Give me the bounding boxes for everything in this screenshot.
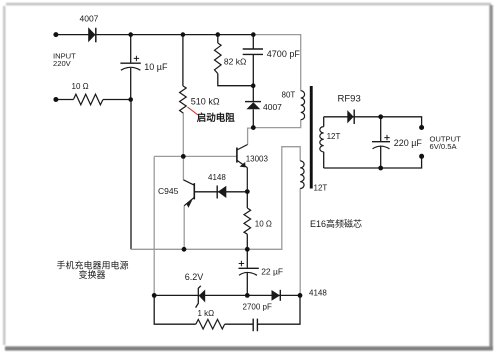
svg-text:220 µF: 220 µF <box>394 138 423 148</box>
node: base rail / 510k bottom <box>181 154 186 159</box>
node: 82k bottom / 4700pF bottom <box>251 83 256 88</box>
wire: 82k branch top <box>217 35 219 43</box>
wire: 82k bottom to node <box>218 74 253 86</box>
transistor Q1 13003 <box>237 145 269 192</box>
node: bottom rail right / feedback <box>298 293 303 298</box>
node: input bottom terminal <box>53 97 58 102</box>
wire: gray rail <box>131 147 300 250</box>
svg-text:4148: 4148 <box>309 289 327 298</box>
svg-text:10 Ω: 10 Ω <box>72 82 89 91</box>
wire: 10R bottom <box>246 234 248 249</box>
wire: bottom loop right <box>257 295 300 324</box>
wire: Q1 emitter to 10R <box>246 192 248 208</box>
wire: feedback winding bottom down <box>299 189 301 296</box>
capacitor C1 10uF <box>120 56 168 72</box>
svg-text:启动电阻: 启动电阻 <box>197 112 236 124</box>
svg-text:2700 pF: 2700 pF <box>243 303 272 312</box>
node: Q1 emitter / 4148 <box>245 189 250 194</box>
wire: bottom rail <box>154 294 300 296</box>
wire: center vertical (4700pF / damper diode) <box>252 35 254 49</box>
wire: C945 emitter down <box>183 206 185 250</box>
wire: secondary ends <box>323 117 325 127</box>
wire: primary bottom to collector node <box>253 120 300 128</box>
node: bottom rail / 22uF <box>245 293 250 298</box>
node: lower input / 10uF bottom <box>128 97 133 102</box>
svg-text:4007: 4007 <box>263 102 282 112</box>
capacitor 220uF <box>372 135 422 149</box>
capacitor 4700pF <box>243 49 301 59</box>
wire: input lower right of resistor <box>103 99 131 101</box>
wire: 220uF <box>380 117 382 142</box>
node: top rail / 4700pF <box>251 32 256 37</box>
node: gray rail / C945 emitter <box>182 247 187 252</box>
transformer primary 80T <box>282 91 305 120</box>
svg-text:22 µF: 22 µF <box>261 267 283 277</box>
node: bottom rail left <box>152 293 157 298</box>
input label <box>53 52 76 69</box>
node: input top terminal <box>53 32 58 37</box>
svg-text:1 kΩ: 1 kΩ <box>198 309 215 318</box>
wire: collector jog <box>248 128 254 144</box>
svg-text:RF93: RF93 <box>338 94 361 105</box>
wire: left vertical from cap node to gray rail <box>130 100 132 250</box>
node: gray rail / 10R bottom <box>245 247 250 252</box>
svg-text:12T: 12T <box>314 184 328 193</box>
svg-text:6.2V: 6.2V <box>185 272 204 282</box>
red annotation 启动电阻 <box>188 107 236 124</box>
svg-text:E16高频磁芯: E16高频磁芯 <box>310 218 362 229</box>
wire: top rail gray right + down to primary <box>253 35 300 91</box>
node: top rail / 82k <box>216 32 221 37</box>
capacitor 22uF <box>239 261 284 277</box>
zener diode 6.2V <box>185 272 206 307</box>
output labels <box>430 135 462 151</box>
wire: left gray vertical down <box>153 156 155 295</box>
wire: 510k branch <box>182 35 184 86</box>
svg-text:10 µF: 10 µF <box>144 62 168 72</box>
wire: input lower <box>56 99 74 101</box>
node: top rail / 510k <box>181 32 186 37</box>
svg-text:4007: 4007 <box>80 13 99 23</box>
wire: bottom loop left <box>154 295 196 324</box>
capacitor 2700pF <box>243 303 272 332</box>
wire: C945 base to emitter node of Q1 <box>194 191 247 193</box>
node: output terminal - <box>419 154 424 159</box>
resistor 510k <box>180 86 220 113</box>
wire: top rail <box>56 34 253 36</box>
resistor 10 ohm emitter <box>244 208 272 234</box>
resistor 1k <box>196 309 225 329</box>
node: output terminal + <box>419 125 424 130</box>
diode D3 4148 (points left) <box>208 173 226 199</box>
resistor 10 ohm input <box>72 82 104 105</box>
node: output cap top <box>378 114 383 119</box>
wire: output bottom <box>324 156 422 168</box>
node: top rail / 10uF <box>128 32 133 37</box>
diode D1 4007 input <box>80 13 99 42</box>
diode D2 4007 damper <box>245 102 282 112</box>
svg-text:C945: C945 <box>158 186 179 196</box>
transformer core <box>310 86 313 189</box>
wire: 22uF top <box>246 249 248 268</box>
node: collector / primary bottom <box>251 125 256 130</box>
title text <box>57 260 129 280</box>
svg-text:4148: 4148 <box>208 173 226 182</box>
wire: C945 collector up <box>182 156 184 179</box>
svg-text:4700 pF: 4700 pF <box>267 49 301 59</box>
svg-text:13003: 13003 <box>246 155 269 164</box>
wire: bottom loop mid <box>225 323 254 325</box>
svg-text:变换器: 变换器 <box>79 269 106 280</box>
wire: 10uF branch vertical <box>130 35 132 64</box>
feedback winding 12T <box>300 161 327 193</box>
secondary winding 12T <box>320 127 341 152</box>
transistor Q2 C945 (mirrored) <box>158 180 194 208</box>
svg-text:82 kΩ: 82 kΩ <box>224 56 246 66</box>
diode D4 4148 (bottom right) <box>272 289 328 301</box>
node: output cap bottom <box>378 166 383 171</box>
svg-text:220V: 220V <box>53 59 72 68</box>
svg-text:6V/0.5A: 6V/0.5A <box>430 142 458 151</box>
wire: output top <box>324 117 422 128</box>
svg-text:10 Ω: 10 Ω <box>255 220 272 229</box>
svg-text:12T: 12T <box>327 132 341 141</box>
svg-text:510 kΩ: 510 kΩ <box>191 97 220 107</box>
wire: base rail gray <box>154 155 237 157</box>
svg-text:80T: 80T <box>282 91 296 100</box>
resistor 82k <box>215 43 247 74</box>
diode RF93 <box>338 94 361 125</box>
